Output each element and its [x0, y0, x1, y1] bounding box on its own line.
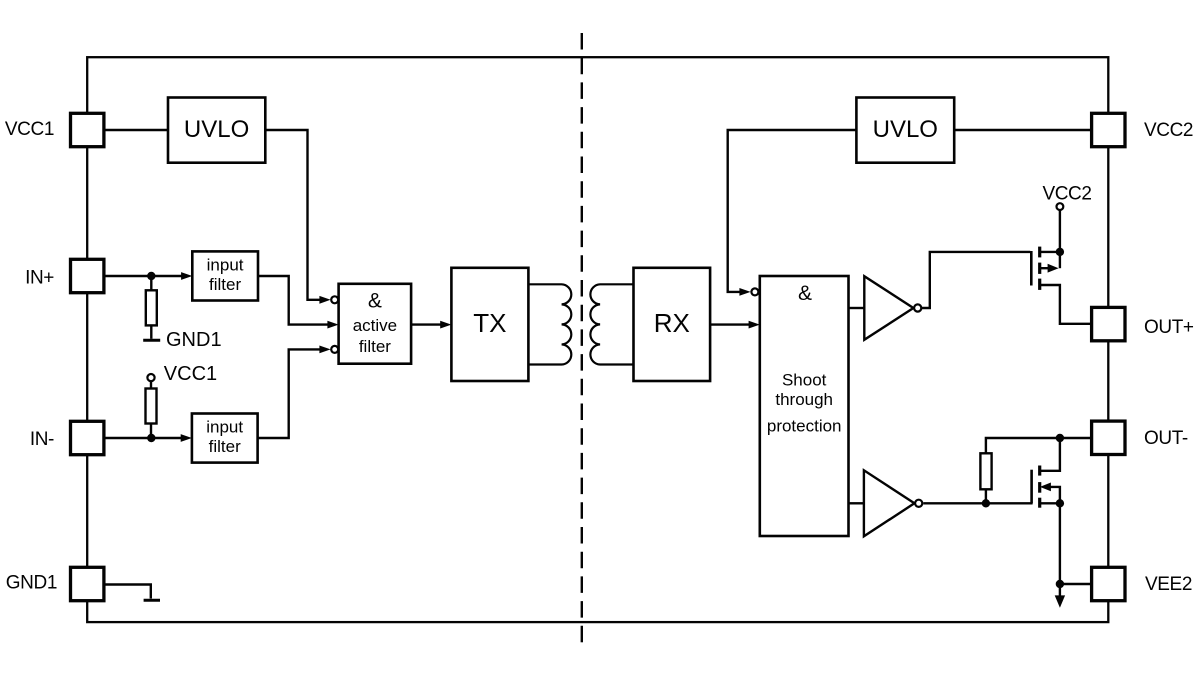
- svg-text:input: input: [206, 418, 243, 437]
- svg-text:protection: protection: [767, 416, 842, 435]
- svg-text:VEE2: VEE2: [1145, 574, 1192, 595]
- svg-text:VCC1: VCC1: [164, 363, 217, 385]
- svg-text:input: input: [207, 256, 244, 275]
- svg-text:VCC2: VCC2: [1042, 184, 1091, 205]
- svg-text:filter: filter: [209, 437, 241, 456]
- svg-text:through: through: [775, 390, 833, 409]
- svg-text:UVLO: UVLO: [184, 116, 249, 143]
- svg-text:GND1: GND1: [6, 573, 57, 594]
- svg-text:filter: filter: [209, 275, 241, 294]
- svg-text:UVLO: UVLO: [873, 116, 938, 143]
- svg-text:filter: filter: [359, 337, 391, 356]
- svg-text:VCC2: VCC2: [1144, 120, 1193, 141]
- svg-text:VCC1: VCC1: [5, 119, 54, 140]
- svg-text:TX: TX: [473, 308, 506, 338]
- svg-text:active: active: [353, 316, 397, 335]
- svg-text:IN+: IN+: [25, 267, 54, 288]
- svg-text:IN-: IN-: [30, 429, 54, 450]
- svg-text:GND1: GND1: [166, 329, 222, 351]
- svg-text:&: &: [368, 290, 382, 313]
- svg-text:&: &: [798, 282, 812, 305]
- svg-text:RX: RX: [654, 308, 690, 338]
- svg-text:Shoot: Shoot: [782, 371, 827, 390]
- svg-text:OUT+: OUT+: [1144, 317, 1194, 338]
- svg-text:OUT-: OUT-: [1144, 428, 1188, 449]
